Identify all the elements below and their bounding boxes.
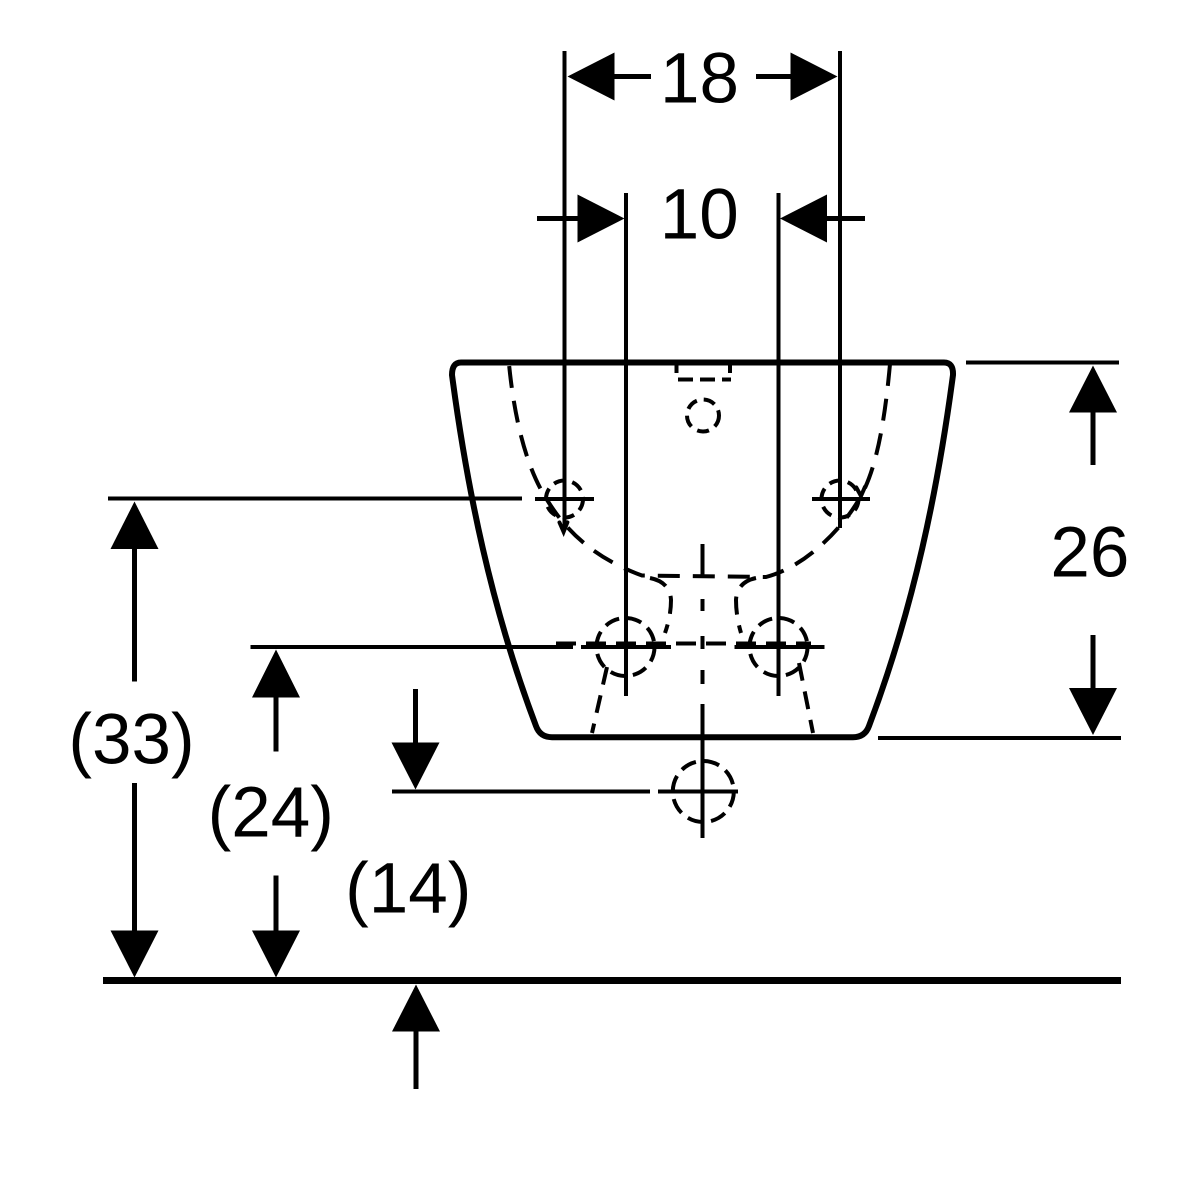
dim 33 lower tail (132, 783, 137, 931)
dim 26 up arrow (1069, 366, 1117, 413)
dim 26 ext line top (966, 361, 1119, 365)
svg-text:18: 18 (660, 40, 739, 119)
dim 18 ext line right (838, 51, 842, 528)
dim 10 right arrow (780, 195, 827, 243)
collar tick left (675, 366, 679, 374)
upper left hole crosshair (535, 497, 594, 501)
bowl dashed outline (509, 364, 890, 577)
collar dashed bottom (678, 378, 731, 382)
vertical center line dashed (701, 544, 705, 684)
dim 10 ext line right (777, 193, 781, 696)
dim 26 ext line bottom (878, 736, 1121, 740)
top small circle (687, 400, 719, 432)
drain hole (673, 761, 734, 822)
bidet outline (452, 363, 953, 738)
upper left fixing hole (546, 481, 583, 518)
dim 14 up arrow below floor (392, 985, 440, 1032)
flow arrowhead left (560, 522, 568, 532)
dim 10 right tail (827, 216, 865, 221)
lower right hole crosshair (735, 645, 825, 649)
dim 33 down arrow (111, 931, 159, 978)
lower left hole crosshair (581, 645, 671, 649)
drain crosshair (658, 790, 738, 794)
svg-text:(33): (33) (68, 701, 194, 780)
dim 18 ext line left (563, 51, 567, 528)
dim 24 down arrow (252, 931, 300, 978)
trap channel leg right (799, 663, 813, 733)
flow arrowhead right (856, 487, 865, 496)
collar tick right (728, 366, 732, 374)
dim 10 left arrow (578, 195, 625, 243)
dim 10 left tail (537, 216, 578, 221)
vertical center line solid part (701, 704, 705, 838)
upper right fixing hole (822, 481, 859, 518)
trap channel neck left (650, 578, 671, 633)
holes dashed center line horizontal (556, 642, 811, 646)
dim 33 up arrow (111, 502, 159, 550)
dim 14 leader (392, 790, 650, 794)
dim 26 bottom tail (1091, 635, 1096, 689)
trap channel neck right (736, 578, 756, 633)
dim 14 down arrow (392, 743, 440, 790)
dim 26 down arrow (1069, 688, 1117, 735)
dim 33 upper tail (132, 548, 137, 682)
dim 24 lower tail (274, 876, 279, 932)
floor line (103, 977, 1121, 984)
dim 26 top tail (1091, 412, 1096, 465)
upper right hole crosshair (812, 497, 870, 501)
dim 18 right arrow (791, 53, 838, 101)
dim 14 tail above (413, 689, 418, 743)
lower right fixing hole (750, 618, 808, 676)
svg-text:26: 26 (1050, 514, 1129, 593)
dim 24 upper tail (274, 697, 279, 752)
svg-text:10: 10 (660, 176, 739, 255)
dim 18 left arrow (568, 53, 615, 101)
dim 18 left tail (615, 74, 652, 79)
svg-text:(14): (14) (345, 850, 471, 929)
lower left fixing hole (597, 618, 655, 676)
trap channel leg left (592, 667, 607, 733)
dim 18 right tail (756, 74, 791, 79)
dim 33 leader (108, 497, 522, 501)
dim 24 up arrow (252, 650, 300, 698)
svg-text:(24): (24) (208, 774, 334, 853)
dim 14 tail below floor (414, 1032, 419, 1090)
dim 10 ext line left (624, 193, 628, 696)
dim 24 leader (251, 645, 574, 649)
